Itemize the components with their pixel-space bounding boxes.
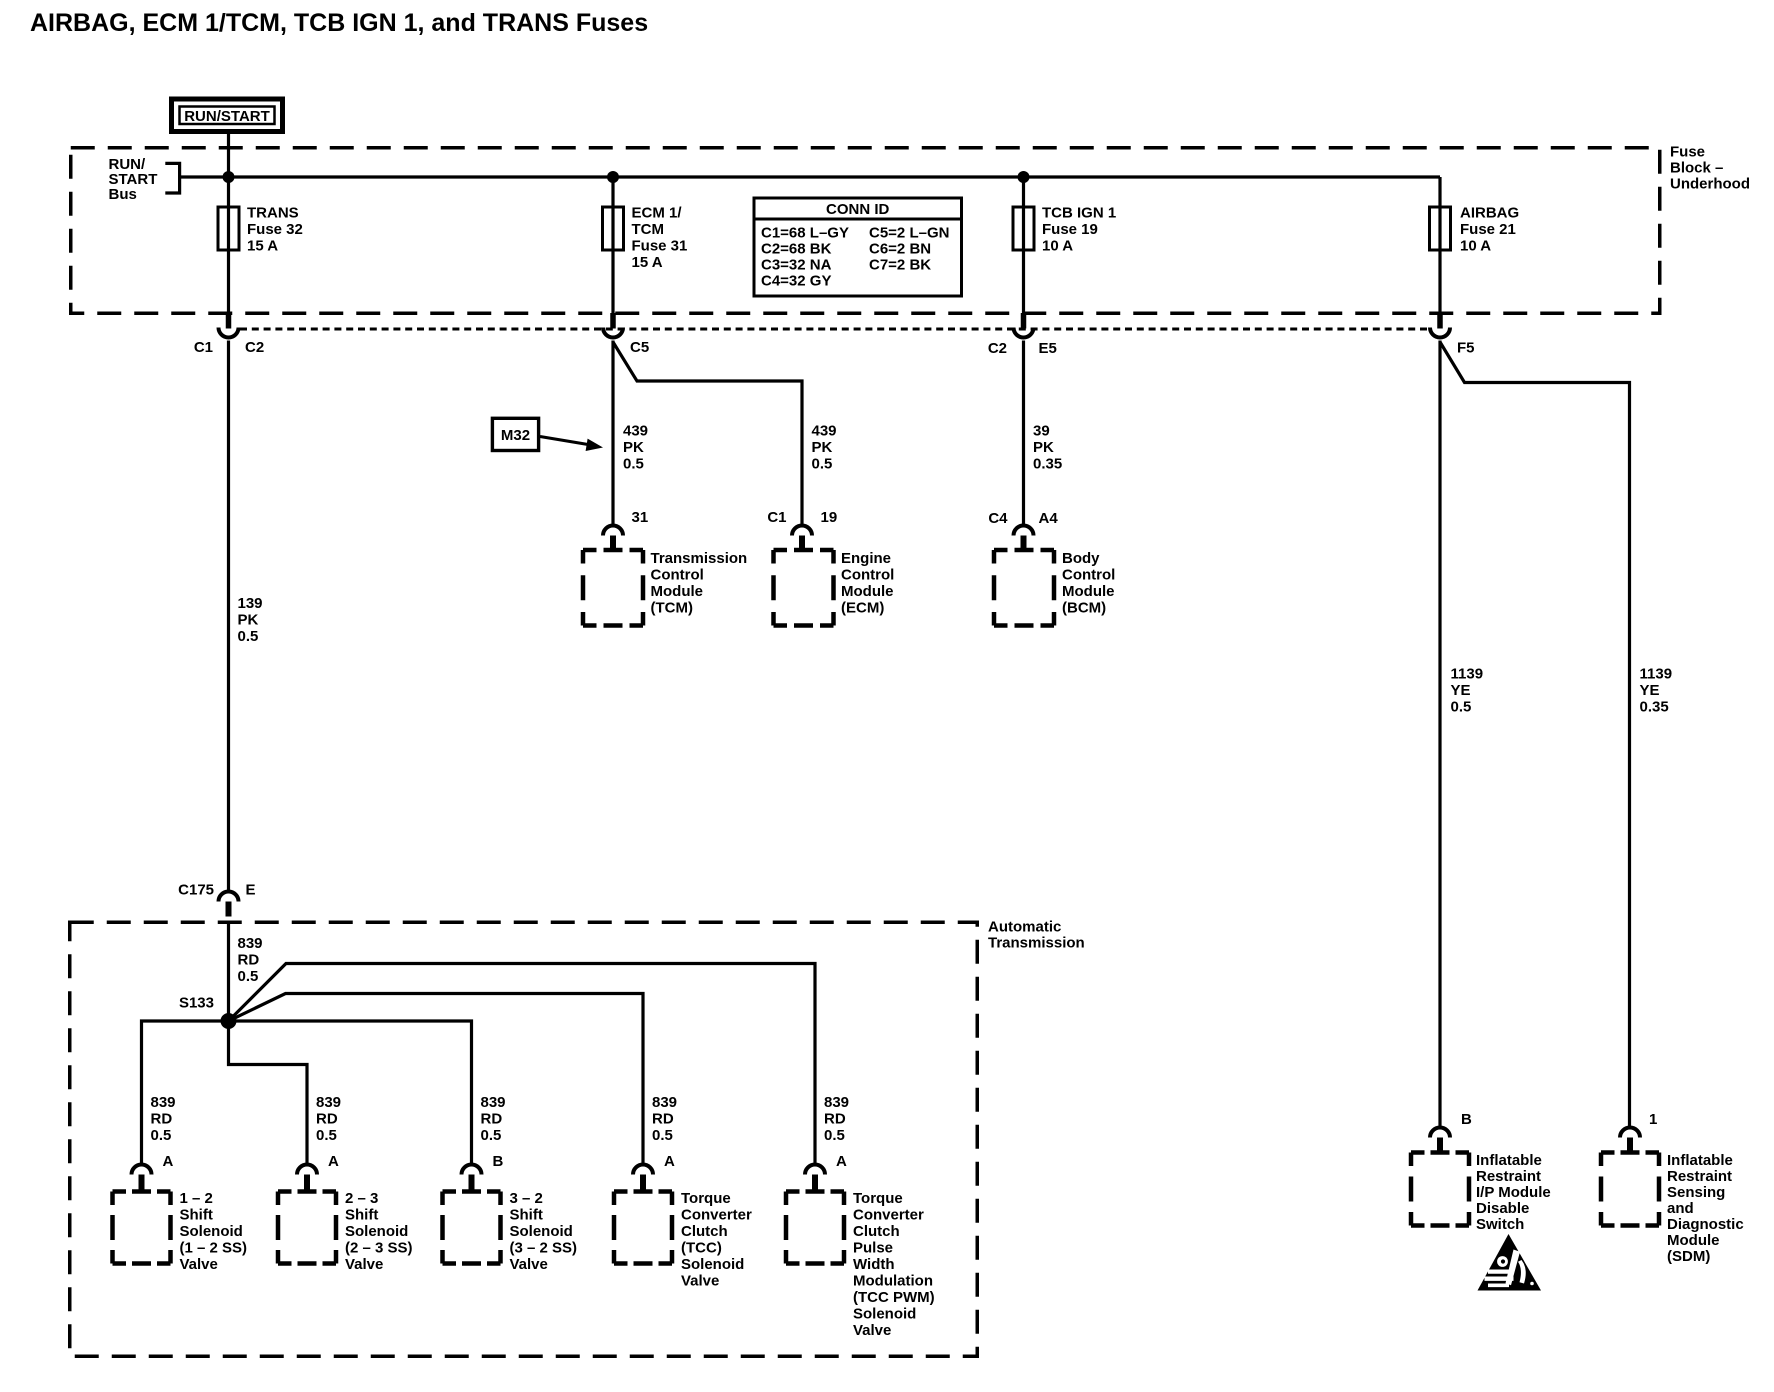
svg-text:C175: C175 [178,882,214,899]
svg-text:Bus: Bus [109,186,137,203]
pin B 3-2 shift solenoid valve [493,1153,504,1170]
svg-text:3 – 2: 3 – 2 [510,1190,543,1207]
svg-text:Sensing: Sensing [1667,1184,1725,1201]
svg-text:C2: C2 [988,340,1007,357]
svg-text:Fuse 31: Fuse 31 [632,238,688,255]
pin C1 ECM [767,509,786,526]
svg-text:10 A: 10 A [1460,238,1491,255]
svg-text:Control: Control [651,567,704,584]
svg-text:Torque: Torque [853,1190,903,1207]
svg-text:PK: PK [238,612,259,629]
connector C2/E5 at TCB fuse [1014,313,1034,338]
pin A 1-2 shift solenoid valve [163,1153,174,1170]
pin A4 [1039,510,1059,527]
label ECM 1/TCM Fuse 31 15 A [632,205,688,272]
svg-text:C6=2 BN: C6=2 BN [869,241,931,258]
label Automatic Transmission [988,919,1085,952]
svg-text:19: 19 [821,509,838,526]
svg-text:PK: PK [1033,439,1054,456]
svg-text:Width: Width [853,1256,895,1273]
box 2-3 shift solenoid valve [278,1192,336,1264]
svg-text:A4: A4 [1039,510,1059,527]
svg-text:AIRBAG, ECM 1/TCM, TCB IGN 1,: AIRBAG, ECM 1/TCM, TCB IGN 1, and TRANS … [30,9,648,37]
svg-text:439: 439 [623,423,648,440]
svg-text:Valve: Valve [345,1256,383,1273]
svg-text:Automatic: Automatic [988,919,1061,936]
svg-text:Shift: Shift [510,1207,543,1224]
svg-text:Clutch: Clutch [681,1223,728,1240]
box inflatable restraint I/P module disable switch [1411,1153,1469,1226]
fuse block underhood dashed box [71,148,1660,314]
label 139 PK 0.5 [238,595,263,645]
svg-text:0.5: 0.5 [316,1127,337,1144]
connector F5 at AIRBAG fuse [1430,313,1450,338]
svg-text:(TCM): (TCM) [651,600,693,617]
module box BCM [994,550,1054,626]
wire bus to ECM fuse [611,177,614,313]
wire bus to TCB fuse [1022,177,1025,313]
label Engine Control Module (ECM) [841,550,894,617]
label 839 RD 0.5 3-2 shift solenoid valve [481,1094,506,1144]
svg-text:PK: PK [812,439,833,456]
svg-text:839: 839 [652,1094,677,1111]
svg-text:0.5: 0.5 [151,1127,172,1144]
svg-text:Control: Control [841,567,894,584]
svg-text:Converter: Converter [681,1207,752,1224]
junction on bus at ECM fuse [607,171,619,183]
label 1139 YE 0.35 [1640,666,1673,716]
wire 439 PK 0.5 to TCM [611,341,614,526]
svg-text:Fuse: Fuse [1670,144,1705,161]
wire 39 PK 0.35 to BCM [1022,341,1025,526]
svg-text:Solenoid: Solenoid [853,1306,916,1323]
connector at 2-3 shift solenoid valve [297,1165,317,1190]
svg-text:and: and [1667,1200,1694,1217]
wire 439 PK 0.5 branch to ECM [613,342,802,525]
pin 31 [632,509,649,526]
svg-text:1139: 1139 [1640,666,1673,683]
wire 839 RD 0.5 C175 to S133 [227,921,230,1021]
splice S133 [221,1013,237,1029]
svg-text:Fuse 32: Fuse 32 [247,221,303,238]
wire bus to AIRBAG fuse [1438,177,1441,313]
svg-text:Fuse 21: Fuse 21 [1460,221,1516,238]
pin A TCC PWM solenoid valve [836,1153,847,1170]
pin C175 [178,882,214,899]
label S133 [179,995,214,1012]
svg-text:CONN ID: CONN ID [826,201,890,218]
svg-text:0.5: 0.5 [824,1127,845,1144]
label TCC solenoid valve [681,1190,752,1290]
svg-text:C1: C1 [194,339,213,356]
svg-text:Inflatable: Inflatable [1476,1152,1542,1169]
automatic transmission dashed box [70,922,978,1356]
label AIRBAG Fuse 21 10 A [1460,205,1519,255]
CONN ID right column [869,225,949,274]
connector dotted line [240,328,1428,331]
svg-text:Valve: Valve [180,1256,218,1273]
connector B at disable switch [1430,1128,1450,1153]
svg-text:PK: PK [623,439,644,456]
svg-text:A: A [664,1153,675,1170]
svg-text:A: A [163,1153,174,1170]
label 839 RD 0.5 TCC PWM solenoid valve [824,1094,849,1144]
svg-text:1139: 1139 [1451,666,1484,683]
svg-text:RD: RD [238,952,260,969]
pin A 2-3 shift solenoid valve [328,1153,339,1170]
svg-text:RD: RD [481,1111,503,1128]
pin E [246,882,256,899]
svg-text:B: B [493,1153,504,1170]
wire S133 to TCC PWM solenoid [229,964,816,1165]
wire RUN/START bus [180,175,1440,178]
svg-text:Solenoid: Solenoid [510,1223,573,1240]
fuse TCB IGN 1 Fuse 19 10A [1013,207,1034,250]
svg-text:Pulse: Pulse [853,1240,893,1257]
svg-text:1 – 2: 1 – 2 [180,1190,213,1207]
svg-text:Module: Module [651,583,704,600]
svg-text:F5: F5 [1457,340,1475,357]
module box TCM [583,550,643,626]
svg-text:RD: RD [824,1111,846,1128]
pin 1 [1649,1111,1657,1128]
svg-text:0.35: 0.35 [1640,699,1669,716]
module box ECM [774,550,834,626]
svg-text:0.5: 0.5 [238,628,259,645]
bus bracket [165,163,179,193]
svg-text:Valve: Valve [681,1273,719,1290]
svg-text:Restraint: Restraint [1476,1168,1541,1185]
svg-text:C5: C5 [630,339,649,356]
pin F5 [1457,340,1475,357]
svg-text:M32: M32 [501,427,530,444]
svg-text:Switch: Switch [1476,1216,1524,1233]
pin C2 [245,339,264,356]
connector C5 at ECM fuse [603,313,623,338]
svg-text:RD: RD [151,1111,173,1128]
svg-text:Body: Body [1062,550,1100,567]
label TRANS Fuse 32 15 A [247,205,303,255]
wire bus to TRANS fuse [227,177,230,313]
label 439 PK 0.5 TCM [623,423,648,473]
svg-text:(TCC PWM): (TCC PWM) [853,1289,935,1306]
svg-text:Converter: Converter [853,1207,924,1224]
RUN/START keyword box [172,99,283,132]
CONN ID table [754,198,962,296]
svg-text:TCM: TCM [632,221,665,238]
svg-text:C2=68 BK: C2=68 BK [761,241,832,258]
svg-text:0.5: 0.5 [481,1127,502,1144]
label Fuse Block - Underhood [1670,144,1750,193]
svg-text:A: A [328,1153,339,1170]
svg-text:ECM 1/: ECM 1/ [632,205,683,222]
label Inflatable Restraint Sensing and Diagnostic Module (SDM) [1667,1152,1744,1265]
connector 1 at SDM [1620,1128,1640,1153]
label 439 PK 0.5 ECM [812,423,837,473]
svg-text:RD: RD [316,1111,338,1128]
pin A TCC solenoid valve [664,1153,675,1170]
label TCC PWM solenoid valve [853,1190,935,1339]
svg-text:1: 1 [1649,1111,1657,1128]
svg-text:(BCM): (BCM) [1062,600,1106,617]
svg-text:YE: YE [1640,682,1660,699]
svg-text:Module: Module [841,583,894,600]
svg-text:Clutch: Clutch [853,1223,900,1240]
svg-text:(2 – 3 SS): (2 – 3 SS) [345,1240,413,1257]
svg-text:839: 839 [824,1094,849,1111]
wire S133 to 1-2 shift solenoid [142,1021,229,1165]
svg-text:Module: Module [1667,1232,1720,1249]
svg-text:839: 839 [238,935,263,952]
svg-text:Fuse 19: Fuse 19 [1042,221,1098,238]
svg-text:AIRBAG: AIRBAG [1460,205,1519,222]
svg-text:Restraint: Restraint [1667,1168,1732,1185]
svg-text:Valve: Valve [510,1256,548,1273]
svg-text:RUN/START: RUN/START [184,108,270,125]
svg-text:Shift: Shift [345,1207,378,1224]
connector C175 pin E [219,892,239,917]
svg-text:Block –: Block – [1670,160,1723,177]
box inflatable restraint sensing and diagnostic module [1601,1153,1659,1226]
svg-text:A: A [836,1153,847,1170]
label 1-2 shift solenoid valve [180,1190,248,1273]
svg-text:C2: C2 [245,339,264,356]
wire 139 PK 0.5 TRANS to C175 [227,341,230,891]
svg-text:E5: E5 [1039,340,1057,357]
label 839 RD 0.5 1-2 shift solenoid valve [151,1094,176,1144]
svg-text:Solenoid: Solenoid [681,1256,744,1273]
svg-text:(ECM): (ECM) [841,600,884,617]
wire S133 to 2-3 shift solenoid [229,1021,308,1165]
label TCB IGN 1 Fuse 19 10 A [1042,205,1116,255]
svg-text:0.5: 0.5 [1451,699,1472,716]
svg-text:Transmission: Transmission [988,935,1085,952]
svg-text:Engine: Engine [841,550,891,567]
svg-text:439: 439 [812,423,837,440]
svg-text:C7=2 BK: C7=2 BK [869,257,931,274]
wire 1139 YE 0.35 branch to SDM [1440,342,1630,1128]
svg-text:C4=32 GY: C4=32 GY [761,273,831,290]
svg-text:31: 31 [632,509,649,526]
svg-text:Transmission: Transmission [651,550,748,567]
svg-text:15 A: 15 A [247,238,278,255]
label Body Control Module (BCM) [1062,550,1115,617]
connector at TCC solenoid valve [633,1165,653,1190]
connector 31 at TCM [603,526,623,551]
label 3-2 shift solenoid valve [510,1190,578,1273]
connector at 1-2 shift solenoid valve [132,1165,152,1190]
svg-text:C5=2 L–GN: C5=2 L–GN [869,225,949,242]
label 839 RD 0.5 2-3 shift solenoid valve [316,1094,341,1144]
pin 19 [821,509,838,526]
svg-text:Diagnostic: Diagnostic [1667,1216,1744,1233]
svg-text:Underhood: Underhood [1670,176,1750,193]
svg-text:Torque: Torque [681,1190,731,1207]
svg-text:Modulation: Modulation [853,1273,933,1290]
svg-text:S133: S133 [179,995,214,1012]
fuse TRANS Fuse 32 15A [218,207,239,250]
svg-text:(SDM): (SDM) [1667,1248,1710,1265]
junction on bus at TRANS fuse [223,171,235,183]
label 39 PK 0.35 [1033,423,1062,473]
pin C4 [988,510,1008,527]
svg-text:839: 839 [481,1094,506,1111]
wire 1139 YE 0.5 F5 to disable switch [1438,341,1441,1128]
svg-text:0.5: 0.5 [238,968,259,985]
pin C5 [630,339,649,356]
label Transmission Control Module (TCM) [651,550,748,617]
M32 callout box with arrow [492,418,603,451]
fuse AIRBAG Fuse 21 10A [1430,207,1451,250]
svg-text:TCB IGN 1: TCB IGN 1 [1042,205,1116,222]
svg-text:2 – 3: 2 – 3 [345,1190,378,1207]
svg-text:E: E [246,882,256,899]
svg-text:0.5: 0.5 [623,456,644,473]
svg-text:RD: RD [652,1111,674,1128]
svg-text:139: 139 [238,595,263,612]
pin E5 [1039,340,1057,357]
svg-text:(3 – 2 SS): (3 – 2 SS) [510,1240,578,1257]
connector C1/C2 at TRANS fuse [219,313,239,338]
box 3-2 shift solenoid valve [443,1192,501,1264]
svg-text:10 A: 10 A [1042,238,1073,255]
connector C1/19 at ECM [792,526,812,551]
svg-text:Solenoid: Solenoid [345,1223,408,1240]
svg-text:Module: Module [1062,583,1115,600]
svg-text:C3=32 NA: C3=32 NA [761,257,832,274]
wire from RUN/START box [227,134,230,177]
pin C2 TCB [988,340,1007,357]
svg-text:Inflatable: Inflatable [1667,1152,1733,1169]
junction on bus at TCB fuse [1018,171,1030,183]
svg-text:Disable: Disable [1476,1200,1529,1217]
svg-text:Control: Control [1062,567,1115,584]
airbag warning triangle icon [1478,1234,1542,1291]
svg-text:15 A: 15 A [632,254,663,271]
pin B [1461,1111,1472,1128]
svg-text:Valve: Valve [853,1322,891,1339]
CONN ID left column [761,225,849,290]
label 839 RD 0.5 TCC solenoid valve [652,1094,677,1144]
pin C1 [194,339,213,356]
box TCC PWM solenoid valve [786,1192,844,1264]
svg-text:839: 839 [151,1094,176,1111]
connector at 3-2 shift solenoid valve [462,1165,482,1190]
label RUN/START Bus [109,156,158,203]
wire S133 to TCC solenoid [229,994,644,1165]
box 1-2 shift solenoid valve [113,1192,171,1264]
label 2-3 shift solenoid valve [345,1190,413,1273]
connector C4/A4 at BCM [1014,526,1034,551]
svg-text:Shift: Shift [180,1207,213,1224]
svg-text:0.5: 0.5 [812,456,833,473]
svg-text:B: B [1461,1111,1472,1128]
svg-text:0.35: 0.35 [1033,456,1062,473]
svg-text:C4: C4 [988,510,1008,527]
fuse ECM 1/TCM Fuse 31 15A [603,207,624,250]
svg-text:0.5: 0.5 [652,1127,673,1144]
svg-text:TRANS: TRANS [247,205,299,222]
svg-text:(TCC): (TCC) [681,1240,722,1257]
svg-text:C1: C1 [767,509,786,526]
svg-text:YE: YE [1451,682,1471,699]
svg-text:I/P Module: I/P Module [1476,1184,1551,1201]
svg-text:(1 – 2 SS): (1 – 2 SS) [180,1240,248,1257]
wire S133 to 3-2 shift solenoid [229,1021,472,1165]
connector at TCC PWM solenoid valve [805,1165,825,1190]
svg-text:39: 39 [1033,423,1050,440]
svg-text:C1=68 L–GY: C1=68 L–GY [761,225,849,242]
label 839 RD 0.5 main [238,935,263,985]
label Inflatable Restraint I/P Module Disable Switch [1476,1152,1551,1233]
box TCC solenoid valve [614,1192,672,1264]
label 1139 YE 0.5 [1451,666,1484,716]
svg-text:Solenoid: Solenoid [180,1223,243,1240]
svg-text:839: 839 [316,1094,341,1111]
